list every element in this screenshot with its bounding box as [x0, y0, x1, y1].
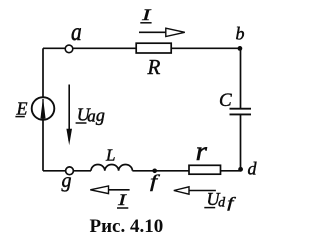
svg-text:Рис. 4.10: Рис. 4.10: [90, 216, 164, 237]
wire right C-d: [240, 115, 242, 171]
voltage arrow U_df: [174, 187, 216, 194]
label U_ag: [76, 104, 105, 125]
label U_df: [204, 189, 236, 211]
capacitor C plates: [230, 109, 252, 115]
svg-text:d: d: [218, 196, 226, 211]
label I bottom: [117, 192, 128, 209]
resistor R: [136, 43, 171, 53]
svg-text:I: I: [141, 7, 152, 24]
wire top a-b: [43, 47, 241, 49]
svg-text:a: a: [87, 107, 96, 126]
svg-text:L: L: [105, 146, 115, 165]
current arrow I top: [139, 28, 185, 36]
label E: [15, 99, 27, 119]
wire bottom r-d: [221, 170, 241, 172]
resistor r: [189, 165, 221, 174]
current arrow I bottom: [90, 186, 129, 194]
node a: [65, 45, 73, 53]
voltage arrow U_ag: [66, 85, 72, 146]
EMF source E: [32, 97, 55, 120]
node d: [238, 167, 243, 172]
svg-text:g: g: [62, 170, 72, 192]
svg-text:g: g: [96, 105, 105, 125]
svg-text:E: E: [16, 99, 28, 119]
wire bottom L-f-r: [132, 170, 189, 172]
svg-text:r: r: [196, 137, 207, 167]
svg-text:R: R: [147, 55, 161, 79]
node b: [238, 46, 243, 51]
svg-text:b: b: [236, 24, 245, 44]
label I top: [140, 7, 151, 24]
wire left side a-E-g: [42, 48, 44, 171]
inductor L: [91, 165, 132, 171]
node g: [66, 167, 74, 175]
svg-text:a: a: [71, 18, 82, 46]
svg-text:d: d: [248, 159, 258, 179]
wire right b-C: [240, 48, 242, 108]
wire bottom g-L: [43, 170, 91, 172]
node f: [152, 169, 157, 174]
svg-text:C: C: [219, 90, 232, 111]
